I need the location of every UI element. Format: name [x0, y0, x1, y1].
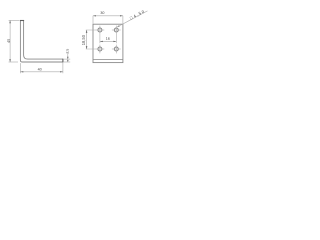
hole bottom-left — [98, 47, 102, 51]
left view right end cap — [62, 59, 64, 63]
dim 40 horizontal arrow left — [20, 71, 23, 72]
dim 16 text — [106, 37, 110, 40]
hole top-left centerlines — [96, 29, 105, 31]
dim 40 horizontal extension left — [19, 63, 21, 73]
right view bend line — [93, 58, 123, 60]
dim 40 vertical arrow top — [9, 20, 11, 23]
dim 40 vertical extension bottom — [9, 61, 18, 63]
dim 18,5 arrow bottom — [86, 46, 88, 49]
dim 30 extension left — [92, 16, 94, 24]
hole bottom-right centerlines — [112, 48, 121, 50]
dim 40 horizontal line — [20, 71, 63, 73]
leader arrow — [117, 25, 120, 27]
hole top-right centerlines — [112, 29, 121, 31]
dim thickness extension lower — [64, 61, 71, 63]
dim thickness arrow upper — [67, 57, 69, 59]
dim 18,5 text — [82, 35, 85, 45]
dim 18,5 extension top — [86, 29, 96, 31]
dim thickness extension upper — [64, 58, 71, 60]
dim 30 line — [93, 15, 123, 17]
dim 40 horizontal extension right — [62, 63, 64, 73]
hole top-left — [98, 28, 102, 32]
dim 40 horizontal arrow right — [60, 71, 63, 72]
left view inner profile with fillet — [24, 20, 63, 59]
leader text diameter 4,50 — [130, 10, 145, 20]
dim 40 vertical extension top — [9, 19, 20, 21]
dim 18,5 extension bottom — [86, 48, 96, 50]
dim 18,5 arrow top — [86, 30, 88, 33]
left view outer profile — [20, 20, 63, 62]
dim 40 horizontal text — [38, 68, 42, 71]
hole bottom-right — [114, 47, 118, 51]
hole top-right — [114, 28, 118, 32]
right view plate outline — [93, 24, 123, 62]
dim thickness arrow lower — [67, 60, 69, 62]
dim 40 vertical arrow bottom — [9, 59, 11, 62]
dim 40 vertical text — [7, 39, 10, 43]
dim 18,5 line — [86, 30, 88, 49]
dim 30 extension right — [122, 16, 124, 24]
dim thickness text — [66, 49, 69, 53]
dim thickness line — [67, 53, 69, 62]
left view top end cap — [20, 20, 24, 22]
hole bottom-left centerlines — [96, 48, 105, 50]
leader line diameter — [117, 11, 147, 27]
dim 16 arrow left — [100, 41, 103, 42]
dim 40 vertical line — [9, 20, 11, 62]
dim 30 arrow right — [120, 15, 123, 16]
dim 30 arrow left — [93, 15, 96, 16]
dim 16 line — [100, 40, 116, 42]
dim 30 text — [100, 11, 104, 14]
dim 16 arrow right — [113, 41, 116, 42]
